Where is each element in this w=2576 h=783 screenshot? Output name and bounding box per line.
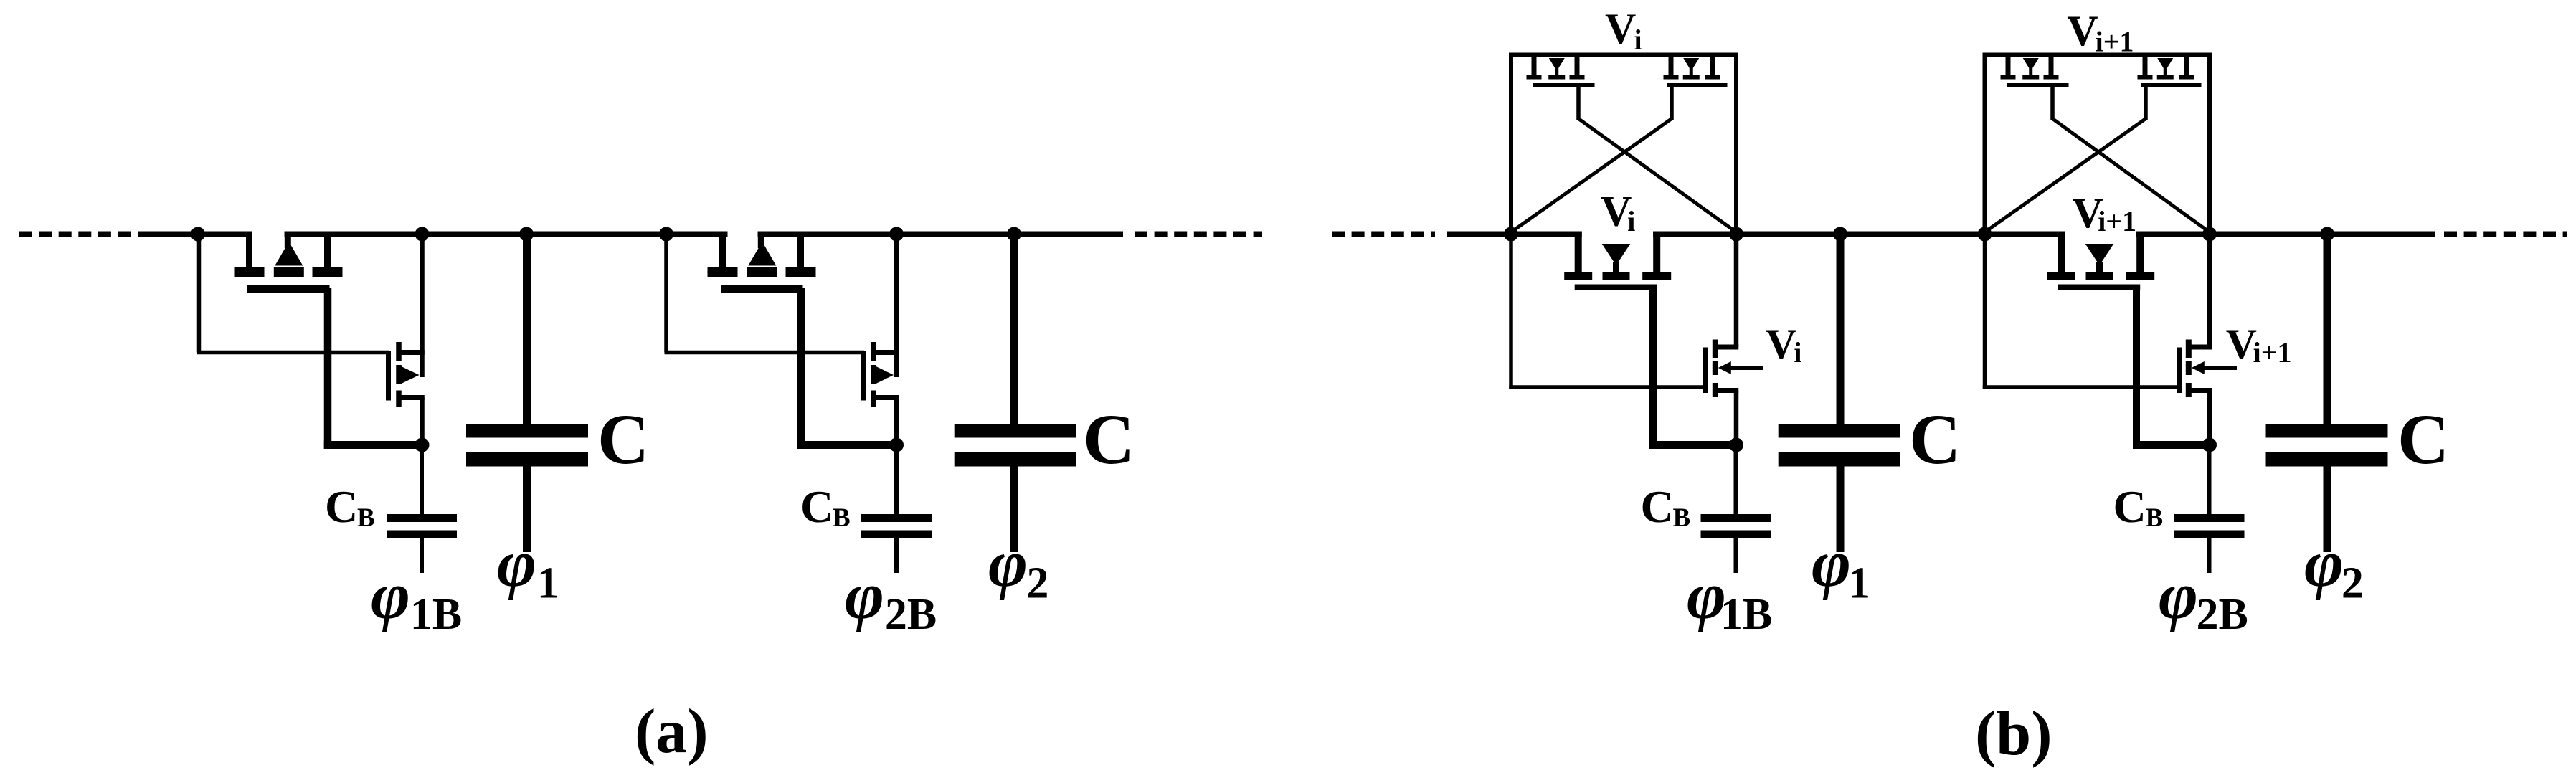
capacitor C1b (pumping capacitor C): [1779, 234, 1900, 553]
node: boost node stage 2 (a): [889, 438, 904, 452]
node: boost node stage 2 (b): [2202, 438, 2217, 452]
svg-text:2: 2: [2341, 559, 2364, 608]
svg-text:B: B: [357, 503, 375, 533]
label V_i+1 (bias box, b): [2067, 7, 2134, 58]
node: boost node stage 1 (b): [1729, 438, 1743, 452]
node: pump node i+2 (b): [2202, 227, 2217, 242]
svg-text:C: C: [2397, 399, 2449, 479]
label clock phi-1B (b): [1687, 559, 1772, 639]
svg-text:C: C: [1083, 399, 1135, 479]
node: pump node 2 (a): [415, 227, 430, 242]
transistor MA2 right (cross-coupled auxiliary pMOS pass device): [1987, 55, 2202, 232]
capacitor CB2b (boost capacitor CB): [2174, 445, 2245, 574]
label C (stage 1b): [1909, 399, 1961, 479]
svg-text:1B: 1B: [1720, 590, 1772, 639]
svg-text:1: 1: [537, 559, 559, 608]
transistor MD1 (diode-connected NMOS charge-transfer device): [235, 232, 422, 450]
label CB (stage 2a): [800, 481, 851, 533]
capacitor CB2 (boost capacitor CB): [861, 445, 932, 574]
svg-text:i+1: i+1: [2096, 26, 2134, 58]
svg-text:φ: φ: [988, 526, 1028, 601]
wire: left dashed rail continuation (b): [1332, 232, 1435, 237]
label V_i+1 (bulk of MP2, b): [2073, 189, 2137, 237]
transistor MD2 (diode-connected NMOS charge-transfer device): [708, 232, 897, 450]
wire: bias box left leg stage 2 (b): [1983, 55, 1987, 234]
wire: bias box right leg stage 2 (b): [2207, 55, 2212, 234]
wire: bias box left leg stage 1 (b): [1509, 55, 1513, 234]
wire: bias box top rail stage 1 (b): [1509, 53, 1738, 57]
svg-text:φ: φ: [497, 526, 536, 601]
label V_i (bulk bias of MS1, b): [1766, 321, 1802, 369]
node: pump node 4 (a): [889, 227, 904, 242]
transistor MA2 left (cross-coupled auxiliary pMOS pass device): [2001, 55, 2208, 232]
wire: main pumping rail segment (b) middle: [1653, 232, 2065, 237]
wire: main pumping rail segment (a) right: [758, 232, 1124, 237]
wire: main pumping rail segment (a) left: [138, 232, 252, 237]
svg-text:V: V: [2226, 321, 2257, 368]
node: pump node i+1 left (b) stage 2: [1978, 227, 1992, 242]
transistor MA1 left (cross-coupled auxiliary pMOS pass device): [1527, 55, 1735, 232]
label V_i (bulk of MP1, b): [1601, 188, 1635, 238]
svg-text:2: 2: [1026, 559, 1048, 608]
node: pump node 1 (a): [191, 227, 205, 242]
node: capacitor C tap node stage 2 (b): [2320, 227, 2334, 242]
capacitor C2b (pumping capacitor C): [2266, 234, 2388, 553]
svg-text:(b): (b): [1975, 699, 2052, 769]
node: pump node i+1 (b): [1729, 227, 1743, 242]
svg-text:2B: 2B: [2197, 590, 2248, 639]
wire: bias box right leg stage 1 (b): [1734, 55, 1738, 234]
svg-text:B: B: [1673, 503, 1691, 533]
node: capacitor C tap node stage 1 (b): [1833, 227, 1847, 242]
wire: bias box top rail stage 2 (b): [1983, 53, 2212, 57]
label clock phi-1 (a): [497, 526, 559, 608]
svg-text:V: V: [1766, 321, 1796, 368]
svg-text:φ: φ: [2304, 526, 2344, 601]
svg-text:(a): (a): [635, 697, 709, 767]
label CB (stage 1b): [1641, 481, 1691, 533]
node: capacitor C tap node stage 1 (a): [519, 227, 534, 242]
svg-text:V: V: [2067, 7, 2098, 54]
svg-text:C: C: [597, 399, 649, 479]
svg-text:φ: φ: [371, 559, 410, 633]
label clock phi-2B (b): [2159, 559, 2248, 639]
svg-text:1B: 1B: [410, 590, 462, 639]
svg-text:i+1: i+1: [2098, 205, 2136, 237]
transistor MS1b (charge transfer switch NMOS): [1703, 234, 1763, 445]
label clock phi-2 (b): [2304, 526, 2364, 608]
wire: right dashed rail continuation (b): [2444, 232, 2567, 237]
capacitor CB1b (boost capacitor CB): [1701, 445, 1771, 574]
label CB (stage 1a): [325, 481, 375, 533]
svg-text:i: i: [1794, 336, 1801, 369]
svg-text:B: B: [833, 503, 851, 533]
transistor MS2 (charge transfer switch NMOS): [861, 234, 899, 445]
svg-text:1: 1: [1848, 559, 1870, 608]
wire: main pumping rail segment (b) left: [1447, 232, 1582, 237]
transistor MA1 right (cross-coupled auxiliary pMOS pass device): [1513, 55, 1728, 232]
label V_i (bias box, b): [1605, 5, 1642, 56]
wire: gate feedback from node i+1 to MS2 gate (b): [1983, 234, 2180, 389]
capacitor CB1 (boost capacitor CB): [387, 445, 457, 574]
label clock phi-2 (a): [988, 526, 1048, 608]
transistor MP2 (main NMOS charge-transfer device): [2047, 232, 2210, 450]
svg-text:V: V: [1605, 5, 1636, 52]
svg-text:i+1: i+1: [2253, 336, 2292, 369]
transistor MS1 (charge transfer switch NMOS): [386, 234, 425, 445]
capacitor C2 (pumping capacitor C): [955, 234, 1076, 553]
svg-text:φ: φ: [1812, 526, 1851, 601]
label C (stage 2b): [2397, 399, 2449, 479]
svg-text:i: i: [1634, 24, 1642, 56]
wire: gate feedback from node 3 to MS2 gate (a): [664, 234, 864, 355]
node: pump node 3 (a): [659, 227, 673, 242]
transistor MS2b (charge transfer switch NMOS): [2177, 234, 2237, 445]
svg-text:B: B: [2146, 503, 2164, 533]
wire: gate feedback from node 1 to MS1 gate (a): [197, 234, 389, 355]
svg-text:2B: 2B: [885, 590, 937, 639]
wire: gate feedback from node i to MS1 gate (b): [1509, 234, 1707, 389]
svg-text:i: i: [1627, 205, 1635, 237]
label clock phi-1B (a): [371, 559, 462, 639]
wire: left dashed rail continuation (a): [19, 232, 133, 237]
transistor MP1 (main NMOS charge-transfer device): [1564, 232, 1736, 450]
node: capacitor C tap node stage 2 (a): [1007, 227, 1021, 242]
label C (stage 2a): [1083, 399, 1135, 479]
svg-text:C: C: [325, 481, 358, 532]
wire: right dashed rail continuation (a): [1135, 232, 1262, 237]
svg-text:C: C: [1641, 481, 1674, 532]
node: pump node i (b): [1504, 227, 1518, 242]
svg-text:C: C: [800, 481, 833, 532]
label V_i+1 (bulk bias of MS2, b): [2226, 321, 2292, 369]
svg-text:C: C: [2113, 481, 2146, 532]
wire: main pumping rail segment (a) middle: [285, 232, 728, 237]
label C (stage 1a): [597, 399, 649, 479]
svg-text:C: C: [1909, 399, 1961, 479]
svg-text:φ: φ: [2159, 559, 2198, 633]
label clock phi-2B (a): [845, 559, 937, 639]
node: boost node stage 1 (a): [415, 438, 430, 452]
wire: main pumping rail segment (b) right: [2136, 232, 2435, 237]
label clock phi-1 (b): [1812, 526, 1870, 608]
label CB (stage 2b): [2113, 481, 2164, 533]
capacitor C1 (pumping capacitor C): [466, 234, 588, 553]
svg-text:φ: φ: [845, 559, 884, 633]
